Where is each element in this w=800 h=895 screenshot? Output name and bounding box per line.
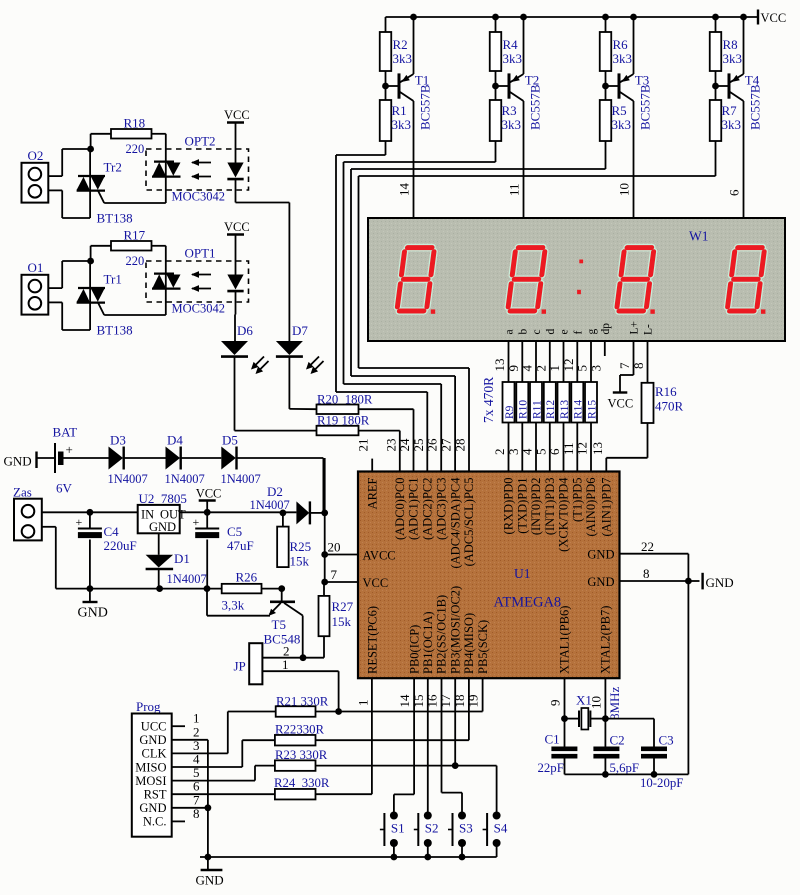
wire AVCC pin 20 <box>324 458 326 555</box>
capacitor C5 47uF <box>206 512 208 528</box>
svg-text:25: 25 <box>411 439 426 452</box>
svg-text:R8: R8 <box>723 37 738 52</box>
svg-text:VCC: VCC <box>761 11 787 25</box>
led of OPT1 <box>235 235 237 275</box>
svg-text:7: 7 <box>331 567 338 582</box>
junction dots on VCC rail <box>630 14 637 21</box>
svg-text:Zas: Zas <box>13 485 32 500</box>
wire resistor R14 to ATMEGA pin 11 <box>576 423 578 472</box>
svg-text:BC548: BC548 <box>264 632 301 647</box>
transistor T1 BC557B <box>398 73 401 98</box>
wire resistor R15 to ATMEGA pin 12 <box>590 423 592 472</box>
wire 7805 OUT to VCC node and D2 <box>180 511 297 513</box>
svg-text:D5: D5 <box>222 433 238 448</box>
wire resistor R11 to ATMEGA pin 4 <box>535 423 537 472</box>
transistor T2 BC557B <box>508 73 511 98</box>
svg-text:3k3: 3k3 <box>393 51 413 66</box>
wire resistor R12 to ATMEGA pin 5 <box>549 423 551 472</box>
ATMEGA AREF stub pin 21 <box>371 459 373 472</box>
wire Zas pin2 to GND bus <box>42 526 56 528</box>
light arrows OPT1 <box>192 274 211 276</box>
svg-text:GND: GND <box>139 801 166 815</box>
svg-text:R7: R7 <box>722 103 738 118</box>
light arrows D7 <box>309 357 319 367</box>
svg-text:15k: 15k <box>290 554 310 569</box>
svg-text:L+: L+ <box>629 321 641 335</box>
wire PB0 pin 14 to S1 <box>413 678 415 794</box>
svg-text:VCC: VCC <box>196 487 222 501</box>
svg-text:C1: C1 <box>545 732 560 747</box>
node MT2 Tr2 <box>87 146 94 153</box>
svg-text:MOC3042: MOC3042 <box>172 302 225 316</box>
svg-text:3k3: 3k3 <box>392 117 412 132</box>
wire node to R18 <box>90 134 92 149</box>
transistor T3 BC557B <box>618 73 621 98</box>
svg-text:3,3k: 3,3k <box>222 598 245 613</box>
resistor R25 15k <box>282 513 284 527</box>
svg-text:6: 6 <box>547 448 562 455</box>
resistor R10 470R <box>516 382 528 423</box>
wire GND pin 22 <box>620 553 689 555</box>
svg-text:+: + <box>66 442 73 457</box>
svg-text:(TXD)PD1: (TXD)PD1 <box>516 478 530 534</box>
svg-text:O1: O1 <box>28 260 44 275</box>
optocoupler OPT1 MOC3042 dashed box <box>146 261 249 302</box>
wire Prog MISO to R22 <box>172 766 243 768</box>
ground symbol GND (bottom) <box>207 857 209 870</box>
wire Prog RST to R24 <box>172 793 275 795</box>
svg-text:g: g <box>586 329 598 335</box>
wire display segment b to resistor <box>521 341 523 382</box>
svg-text:S4: S4 <box>494 821 508 836</box>
power symbol VCC (regulator out) <box>204 509 211 516</box>
svg-text:1N4007: 1N4007 <box>108 472 148 486</box>
capacitor C4 220uF <box>87 509 94 516</box>
svg-text:27: 27 <box>439 438 454 452</box>
svg-text:UCC: UCC <box>141 720 167 734</box>
wire XTAL1 pin 9 <box>564 678 566 746</box>
svg-text:(ADC2)PC2: (ADC2)PC2 <box>421 478 435 541</box>
wire R24 to RESET pin 1 <box>316 793 372 795</box>
wire battery to D3 <box>64 457 109 459</box>
svg-text:(ADC5/SCL)PC5: (ADC5/SCL)PC5 <box>462 478 476 567</box>
wire D5 to VCC node <box>237 457 324 459</box>
resistor R12 470R <box>544 382 556 423</box>
wire R19 to ATMEGA pin 23 <box>359 430 400 432</box>
svg-text:O2: O2 <box>28 148 44 163</box>
svg-text:D4: D4 <box>167 433 183 448</box>
svg-text:C3: C3 <box>659 733 674 748</box>
wire Prog CLK to R21 <box>172 752 228 754</box>
svg-text:(ADC4/SDA)PC4: (ADC4/SDA)PC4 <box>448 477 462 569</box>
wire GND pin 8 <box>620 580 689 582</box>
svg-text:28: 28 <box>453 439 468 452</box>
svg-text:10: 10 <box>617 183 632 196</box>
svg-text:Prog: Prog <box>136 699 161 714</box>
svg-text:24: 24 <box>397 438 412 452</box>
svg-text:BC557B: BC557B <box>638 84 653 130</box>
svg-text:8: 8 <box>631 363 646 370</box>
display W1 body <box>368 218 785 341</box>
svg-text:R24 330R: R24 330R <box>274 776 330 790</box>
svg-text:OPT2: OPT2 <box>185 134 216 149</box>
svg-text:PB4(MISO): PB4(MISO) <box>462 613 476 674</box>
wire R17 to optotriac <box>152 245 166 247</box>
svg-text:AVCC: AVCC <box>363 549 396 563</box>
wire R16 to ATMEGA pin 13 <box>647 423 649 458</box>
svg-text:R6: R6 <box>613 37 629 52</box>
svg-text:R3: R3 <box>502 103 517 118</box>
ground bus (power supply) <box>56 588 222 590</box>
wire O2 pin2 to triac MT1 <box>48 189 62 191</box>
svg-text:ATMEGA8: ATMEGA8 <box>494 595 562 611</box>
wire resistor R9 to ATMEGA pin 2 <box>508 423 510 472</box>
resistor R4 3k3 <box>495 17 497 32</box>
Prog pin1 stub <box>172 725 185 727</box>
node VCC rail right <box>321 510 328 517</box>
ground symbol GND (under C4) <box>89 589 91 602</box>
resistor R6 3k3 <box>605 17 607 32</box>
svg-text:220uF: 220uF <box>104 538 137 553</box>
svg-text:GND: GND <box>587 575 614 589</box>
svg-text:BAT: BAT <box>53 425 78 440</box>
wire R20 to ATMEGA pin 24 <box>359 408 414 410</box>
svg-text:R25: R25 <box>290 539 312 554</box>
diode D1 1N4007 <box>158 533 160 555</box>
svg-text:15k: 15k <box>332 614 352 629</box>
svg-text:(ADC1)PC1: (ADC1)PC1 <box>407 478 421 541</box>
svg-text:8MHz: 8MHz <box>607 687 622 720</box>
svg-text:12: 12 <box>575 442 590 455</box>
svg-text:1: 1 <box>355 700 370 707</box>
wire S4 to ground bus <box>496 843 498 857</box>
svg-text:GND: GND <box>706 575 734 590</box>
svg-text:R16: R16 <box>655 384 677 399</box>
svg-text:S3: S3 <box>459 821 473 836</box>
svg-text:GND: GND <box>4 454 32 469</box>
svg-text:3k3: 3k3 <box>503 51 523 66</box>
svg-text:1N4007: 1N4007 <box>221 472 261 486</box>
wire O2 pin1 to triac MT2 node <box>48 175 62 177</box>
wire display L+ to VCC <box>633 341 635 375</box>
optocoupler OPT2 MOC3042 dashed box <box>146 149 249 190</box>
svg-text:R12: R12 <box>545 400 557 419</box>
svg-text:R2: R2 <box>393 37 408 52</box>
junction dots on VCC rail <box>410 14 417 21</box>
node base of T2 <box>495 71 497 100</box>
svg-text:R26: R26 <box>236 570 258 585</box>
svg-text:14: 14 <box>397 183 412 197</box>
svg-text:20: 20 <box>328 540 341 555</box>
wire T5 emitter to ground <box>207 615 270 617</box>
light arrows D6 <box>254 357 264 367</box>
svg-text:Tr1: Tr1 <box>104 272 122 287</box>
svg-text:GND: GND <box>139 733 166 747</box>
svg-text:VCC: VCC <box>224 108 250 122</box>
svg-text:4: 4 <box>520 448 535 455</box>
transistor T5 BC548 <box>278 585 285 592</box>
node base of T3 <box>605 71 607 100</box>
wire Prog GND pins to ground <box>172 739 208 741</box>
resistor R27 15k <box>323 582 325 596</box>
svg-text:5,6pF: 5,6pF <box>610 761 640 775</box>
wire collector T2 to display <box>523 103 525 218</box>
svg-text:R14: R14 <box>573 400 585 419</box>
wire base R1 to port pin <box>385 141 387 155</box>
svg-text:470R: 470R <box>655 399 684 414</box>
wire PB1 pin 15 to S2 <box>427 678 429 815</box>
wire crystal cap ground bus <box>565 773 689 775</box>
svg-text:AREF: AREF <box>365 477 379 509</box>
wire OPT2 led cathode to D7 <box>236 202 290 204</box>
svg-text:R5: R5 <box>612 103 627 118</box>
wire base line 4 to ATMEGA pin 28 <box>358 176 360 368</box>
svg-text:(INT1)PD3: (INT1)PD3 <box>543 478 557 536</box>
svg-text:2: 2 <box>492 449 507 456</box>
svg-text:XTAL1(PB6): XTAL1(PB6) <box>558 606 572 674</box>
svg-text:GND: GND <box>196 873 224 888</box>
svg-text:13: 13 <box>590 442 605 455</box>
node base of T4 <box>715 71 717 100</box>
svg-text:a: a <box>504 329 516 334</box>
svg-text:13: 13 <box>492 359 507 372</box>
svg-text:R1: R1 <box>392 103 407 118</box>
svg-text:f: f <box>572 331 584 335</box>
svg-text:BT138: BT138 <box>97 323 133 338</box>
svg-text:7x 470R: 7x 470R <box>481 377 496 423</box>
switch S4 <box>493 812 501 820</box>
svg-text:3k3: 3k3 <box>613 51 633 66</box>
wire resistor R10 to ATMEGA pin 3 <box>521 423 523 472</box>
wire D4 to D5 <box>181 457 221 459</box>
display digit 1 <box>397 248 435 311</box>
svg-text:RESET(PC6): RESET(PC6) <box>366 606 380 674</box>
node MT2 Tr1 <box>87 258 94 265</box>
junction dots on VCC rail <box>520 14 527 21</box>
wire XTAL2 pin 10 <box>604 678 606 746</box>
switch S1 <box>390 812 398 820</box>
svg-text:D6: D6 <box>237 323 253 338</box>
svg-text:PB1(OC1A): PB1(OC1A) <box>421 611 435 674</box>
junction dots on VCC rail <box>740 14 747 21</box>
wire O1 pin2 to triac MT1 <box>48 301 62 303</box>
svg-text:RST: RST <box>144 788 167 802</box>
svg-text:JP: JP <box>234 659 246 674</box>
svg-text:D2: D2 <box>267 484 283 499</box>
transistor T4 BC557B <box>728 73 731 98</box>
display digit 4 <box>727 248 765 311</box>
svg-text:GND: GND <box>149 520 176 534</box>
Prog pin8 stub <box>172 820 185 822</box>
wire collector T1 to display <box>413 103 415 218</box>
capacitor C3 10-20pF <box>605 718 654 720</box>
wire D3 to D4 <box>124 457 166 459</box>
svg-text:BC557B: BC557B <box>528 84 543 130</box>
svg-text:VCC: VCC <box>608 397 634 411</box>
svg-text:S2: S2 <box>425 821 439 836</box>
svg-text:1N4007: 1N4007 <box>167 572 207 586</box>
svg-text:CLK: CLK <box>142 747 167 761</box>
wire display segment a to resistor <box>508 341 510 382</box>
svg-text:(AIN1)PD7: (AIN1)PD7 <box>600 478 614 537</box>
svg-text:C4: C4 <box>104 524 120 539</box>
wire R22 to PB4 pin 18 <box>316 739 469 741</box>
resistor R16 470R <box>642 383 654 423</box>
svg-text:R15: R15 <box>586 400 598 419</box>
ground bus (bottom) <box>200 856 497 858</box>
svg-text:S1: S1 <box>391 821 405 836</box>
wire resistor R13 to ATMEGA pin 6 <box>563 423 565 472</box>
svg-text:21: 21 <box>356 439 371 452</box>
svg-text:GND: GND <box>587 548 614 562</box>
wire R21 to PB5 pin 19 <box>316 711 483 713</box>
svg-text:MOC3042: MOC3042 <box>172 190 225 204</box>
svg-text:4: 4 <box>520 365 535 372</box>
wire S2 to ground bus <box>427 843 429 857</box>
svg-text:7: 7 <box>617 362 632 369</box>
wire base line 2 to ATMEGA pin 26 <box>343 162 345 384</box>
svg-text:N.C.: N.C. <box>143 815 167 829</box>
svg-text:220: 220 <box>126 254 145 268</box>
wire collector T4 to display <box>743 103 745 218</box>
svg-text:1: 1 <box>282 657 289 672</box>
svg-text:11: 11 <box>507 183 522 196</box>
ground symbol GND (ATMEGA) <box>701 573 703 590</box>
wire PB2 pin 16 to S3 <box>441 678 443 792</box>
switch S2 <box>424 812 432 820</box>
svg-text:(ADC3)PC3: (ADC3)PC3 <box>434 478 448 541</box>
wire display segment c to resistor <box>535 341 537 382</box>
svg-text:VCC: VCC <box>224 220 250 234</box>
resistor R14 470R <box>571 382 583 423</box>
wire display segment g to resistor <box>590 341 592 382</box>
IC U1 ATMEGA8 body <box>358 472 620 679</box>
svg-text:C2: C2 <box>610 733 625 748</box>
svg-text:PB0(ICP): PB0(ICP) <box>407 625 421 674</box>
svg-text:220: 220 <box>126 142 145 156</box>
svg-text:b: b <box>517 329 529 335</box>
resistor R8 3k3 <box>715 17 717 32</box>
svg-text:3k3: 3k3 <box>502 117 522 132</box>
wire node to R17 <box>90 246 92 261</box>
wire Zas pin1 to 7805 IN <box>42 511 138 513</box>
display digit 2 <box>508 248 546 311</box>
wire S3 to ground bus <box>461 843 463 857</box>
svg-text:T5: T5 <box>272 617 286 632</box>
wire VCC pin 7 <box>324 555 326 583</box>
svg-text:22: 22 <box>641 539 654 554</box>
power symbol VCC (display L+) <box>613 391 628 393</box>
wire R23 to PB3 pin 17 and S4 <box>316 765 497 767</box>
wire base R3 to port pin <box>495 141 497 162</box>
svg-text:U1: U1 <box>514 566 531 581</box>
resistor R11 470R <box>530 382 542 423</box>
svg-text:BT138: BT138 <box>97 211 133 226</box>
wire gate Tr1 to optocoupler <box>98 303 104 315</box>
svg-text:U2 7805: U2 7805 <box>139 491 187 506</box>
wire base R5 to port pin <box>605 141 607 169</box>
power symbol VCC (OPT1 led) <box>227 233 244 235</box>
resistor R2 3k3 <box>385 17 387 32</box>
optotriac of OPT2 <box>165 134 167 203</box>
svg-text:(INT0)PD2: (INT0)PD2 <box>529 478 543 536</box>
svg-text:OPT1: OPT1 <box>185 246 216 261</box>
wire OPT1 led cathode to D6 <box>234 314 237 316</box>
svg-text:BC557B: BC557B <box>418 84 433 130</box>
resistor R13 470R <box>558 382 570 423</box>
wire display L- to R16 <box>647 341 649 383</box>
wire gate Tr2 to optocoupler <box>98 191 104 203</box>
svg-text:3k3: 3k3 <box>722 117 742 132</box>
svg-text:XTAL2(PB7): XTAL2(PB7) <box>599 606 613 674</box>
display colon dots <box>579 260 583 264</box>
resistor R15 470R <box>585 382 597 423</box>
svg-text:(XCK/T0)PD4: (XCK/T0)PD4 <box>557 477 571 552</box>
wire display segment d to resistor <box>549 341 551 382</box>
svg-text:PB2(SS/OC1B): PB2(SS/OC1B) <box>435 595 449 674</box>
svg-text:dp: dp <box>600 323 612 335</box>
svg-text:(T1)PD5: (T1)PD5 <box>571 478 585 522</box>
triac Tr1 BT138 <box>89 261 91 330</box>
svg-text:PB5(SCK): PB5(SCK) <box>476 620 490 674</box>
svg-text:+: + <box>193 515 200 529</box>
node base of T1 <box>385 71 387 100</box>
svg-text:D1: D1 <box>174 551 190 566</box>
power symbol VCC (OPT2 led) <box>227 121 244 123</box>
svg-text:MISO: MISO <box>135 760 166 774</box>
wire base line 3 to ATMEGA pin 27 <box>350 169 352 376</box>
wire Prog MOSI to R23 <box>172 780 255 782</box>
svg-text:R4: R4 <box>503 37 519 52</box>
svg-text:1N4007: 1N4007 <box>250 498 290 512</box>
power symbol VCC (top right) <box>757 10 759 25</box>
svg-text:19: 19 <box>466 695 481 708</box>
svg-text:GND: GND <box>78 606 108 621</box>
wire GND to crystal caps <box>687 581 689 774</box>
svg-text:(RXD)PD0: (RXD)PD0 <box>502 478 516 535</box>
wire O1 pin1 to triac MT2 node <box>48 287 62 289</box>
wire D6 to R19 <box>234 357 236 431</box>
svg-text:1N4007: 1N4007 <box>165 472 205 486</box>
wire base R7 to port pin <box>715 141 717 176</box>
svg-text:d: d <box>545 329 557 335</box>
switch S3 <box>458 812 466 820</box>
svg-text:BC557B: BC557B <box>748 84 763 130</box>
svg-text:R11: R11 <box>531 400 543 419</box>
svg-text:c: c <box>531 329 543 334</box>
resistor R9 470R <box>503 382 515 423</box>
display dp stub <box>604 341 606 356</box>
svg-text:W1: W1 <box>689 229 709 244</box>
svg-text:(AIN0)PD6: (AIN0)PD6 <box>584 478 598 537</box>
svg-text:26: 26 <box>425 438 440 452</box>
svg-text:1: 1 <box>547 365 562 372</box>
wire display segment f to resistor <box>576 341 578 382</box>
resistor R7 3k3 <box>710 100 722 141</box>
svg-text:D3: D3 <box>110 433 126 448</box>
wire base line 1 to ATMEGA pin 25 <box>335 155 337 392</box>
svg-text:8: 8 <box>643 566 650 581</box>
svg-text:22pF: 22pF <box>538 761 564 775</box>
svg-text:6: 6 <box>727 189 742 196</box>
svg-text:D7: D7 <box>292 323 308 338</box>
svg-text:VCC: VCC <box>363 576 389 590</box>
svg-text:47uF: 47uF <box>227 538 254 553</box>
svg-text:R13: R13 <box>559 400 571 419</box>
resistor R5 3k3 <box>600 100 612 141</box>
svg-text:e: e <box>559 329 571 334</box>
svg-text:3k3: 3k3 <box>612 117 632 132</box>
